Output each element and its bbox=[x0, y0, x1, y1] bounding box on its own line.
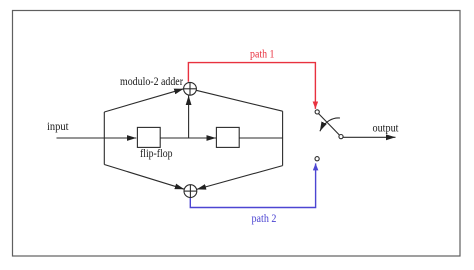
svg-text:input: input bbox=[47, 121, 69, 133]
svg-text:modulo-2 adder: modulo-2 adder bbox=[120, 76, 183, 88]
svg-text:path 1: path 1 bbox=[250, 49, 275, 61]
svg-text:output: output bbox=[373, 123, 400, 135]
svg-text:flip-flop: flip-flop bbox=[140, 148, 173, 160]
svg-text:path 2: path 2 bbox=[252, 213, 277, 225]
